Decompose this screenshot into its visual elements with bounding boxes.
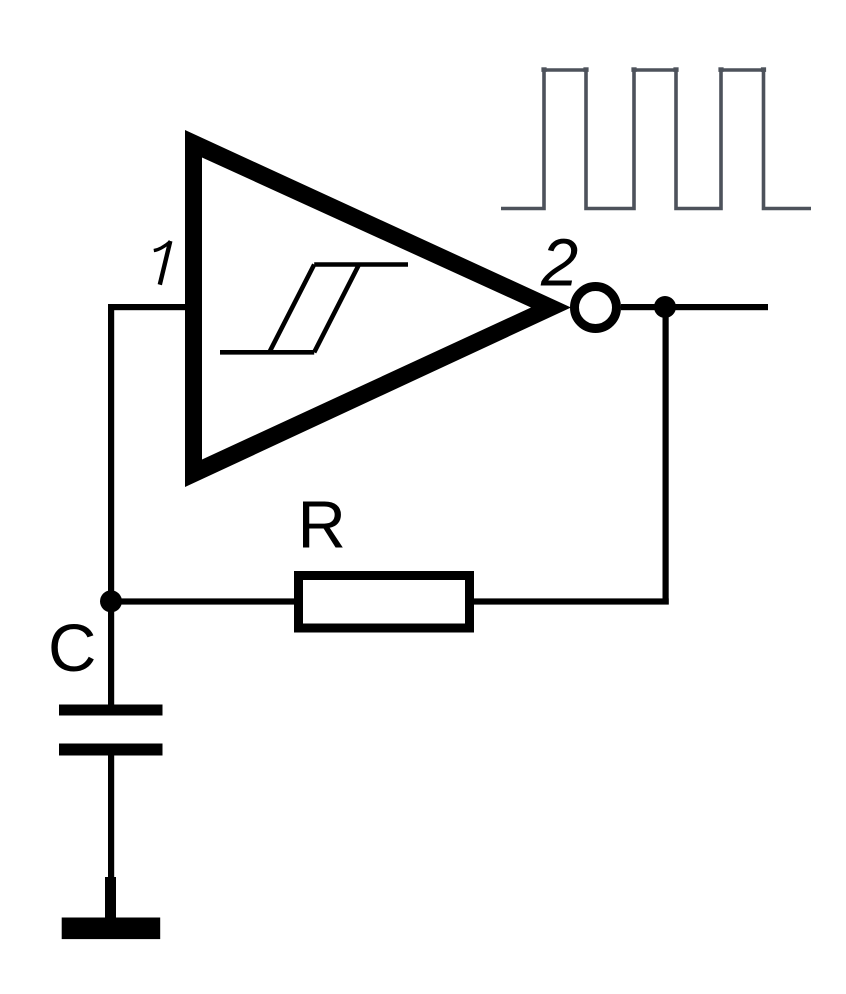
- junction dot (output node): [654, 296, 676, 318]
- svg-text:R: R: [298, 488, 346, 563]
- capacitor C top plate: [59, 705, 163, 716]
- ground stub: [105, 877, 116, 918]
- wire node to resistor: [111, 598, 294, 604]
- svg-text:2: 2: [540, 226, 578, 301]
- capacitor C bottom plate: [59, 744, 163, 756]
- op-amp U1 (Schmitt-trigger inverter triangle): [185, 130, 571, 487]
- wire output horizontal: [621, 304, 768, 310]
- ground bar: [62, 918, 161, 940]
- wire feedback vertical: [663, 307, 669, 605]
- wire node to capacitor: [108, 601, 114, 705]
- pin label 1: [154, 241, 171, 285]
- waveform square wave: [501, 70, 811, 209]
- wire feedback horizontal: [474, 598, 669, 604]
- node A dot: [100, 590, 122, 612]
- hysteresis symbol: [220, 265, 408, 353]
- wire left vertical: [108, 304, 114, 604]
- output bubble: [575, 287, 617, 329]
- resistor R: [299, 576, 470, 629]
- waveform corner markers: [541, 67, 766, 72]
- wire capacitor to ground: [108, 756, 114, 878]
- wire input horizontal (pin 1): [108, 304, 188, 310]
- svg-text:C: C: [48, 611, 96, 686]
